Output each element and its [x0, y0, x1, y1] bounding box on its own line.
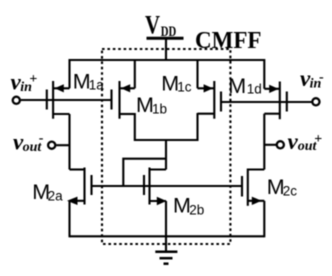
- svg-text:DD: DD: [161, 24, 177, 40]
- transistor M1b: [110, 90, 112, 110]
- wire common gate line: [92, 185, 243, 187]
- arrow M2c: [252, 197, 262, 205]
- node vin- terminal: [312, 98, 319, 105]
- arrow M1c: [204, 84, 213, 92]
- svg-text:1c: 1c: [177, 80, 192, 95]
- svg-text:M: M: [173, 194, 191, 218]
- node vin+ terminal: [13, 97, 20, 104]
- svg-text:2a: 2a: [48, 188, 64, 203]
- wire M1b/M1c drain bus: [135, 113, 198, 140]
- wire vout+ stub: [264, 144, 276, 146]
- transistor M2b: [143, 175, 145, 195]
- wire vout- stub: [56, 144, 69, 146]
- arrow M1b: [121, 84, 130, 92]
- svg-text:2b: 2b: [189, 203, 204, 218]
- arrow M1d: [269, 85, 278, 93]
- wire right vertical (vout+ node): [263, 114, 265, 170]
- svg-text:+: +: [29, 72, 37, 87]
- svg-text:-: -: [39, 131, 44, 146]
- transistor M1a: [46, 90, 48, 110]
- ground: [155, 250, 177, 253]
- VDD supply bar: [147, 37, 184, 40]
- svg-text:M: M: [228, 74, 246, 98]
- wire M1c source vertical: [196, 59, 198, 88]
- arrow M2b: [157, 197, 167, 205]
- svg-text:V: V: [145, 11, 160, 40]
- wire center stub: [165, 140, 167, 170]
- wire vin- line: [221, 101, 312, 103]
- wire vin+ line: [21, 99, 112, 101]
- wire left vertical (vout- node): [68, 114, 70, 170]
- wire VDD stub: [165, 40, 167, 61]
- node vout- terminal: [48, 142, 55, 149]
- wire M1a source vertical: [68, 59, 70, 88]
- svg-text:1a: 1a: [89, 78, 105, 93]
- arrow M1a: [55, 84, 64, 92]
- wire bottom rail: [70, 235, 265, 237]
- svg-text:+: +: [314, 132, 322, 147]
- wire M2b diode connection: [123, 159, 166, 186]
- svg-text:-: -: [319, 70, 324, 85]
- wire M1d source vertical: [263, 59, 265, 89]
- transistor M2c: [241, 176, 243, 197]
- transistor M1d: [286, 92, 288, 112]
- svg-text:CMFF: CMFF: [195, 28, 262, 54]
- arrow M2a: [67, 197, 78, 205]
- transistor M2a: [90, 175, 92, 195]
- CMFF dashed box: [102, 49, 230, 244]
- svg-text:1d: 1d: [247, 82, 262, 97]
- wire M1b source vertical: [134, 59, 136, 88]
- node vout+ terminal: [277, 141, 284, 148]
- svg-text:2c: 2c: [283, 183, 298, 198]
- wire top rail: [70, 59, 265, 61]
- svg-text:1b: 1b: [152, 101, 167, 116]
- transistor M1c: [220, 92, 222, 112]
